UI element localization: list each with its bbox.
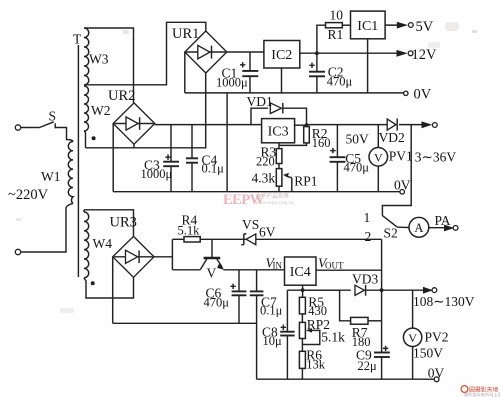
svg-text:S2: S2 [384, 226, 398, 241]
svg-text:12V: 12V [412, 47, 438, 63]
svg-text:0V: 0V [414, 87, 432, 103]
svg-text:1: 1 [364, 210, 371, 225]
svg-text:www.eepw.com.cn: www.eepw.com.cn [256, 201, 294, 206]
svg-text:OUT: OUT [325, 261, 344, 271]
svg-text:470μ: 470μ [204, 296, 230, 310]
svg-text:摄影爱好者的网上家园: 摄影爱好者的网上家园 [464, 391, 500, 397]
svg-text:150V: 150V [413, 346, 443, 361]
svg-text:0.1μ: 0.1μ [202, 162, 225, 176]
svg-text:RP1: RP1 [294, 174, 317, 189]
svg-text:430: 430 [308, 304, 327, 318]
svg-text:W3: W3 [89, 52, 109, 67]
svg-text:10μ: 10μ [263, 334, 283, 348]
svg-text:UR3: UR3 [110, 215, 137, 231]
svg-text:3∼36V: 3∼36V [415, 150, 457, 165]
svg-text:IC2: IC2 [271, 48, 292, 63]
svg-text:VD3: VD3 [352, 272, 378, 287]
svg-text:V: V [207, 266, 217, 281]
svg-text:UR2: UR2 [108, 88, 135, 104]
svg-text:PA: PA [435, 213, 451, 228]
svg-text:IC1: IC1 [357, 19, 378, 34]
svg-text:W1: W1 [41, 169, 61, 184]
svg-text:10: 10 [330, 7, 344, 22]
svg-text:~220V: ~220V [8, 187, 49, 203]
svg-text:A: A [414, 221, 423, 235]
svg-text:V: V [408, 331, 417, 345]
svg-text:VS: VS [242, 217, 259, 232]
svg-text:电子产品世界: 电子产品世界 [256, 192, 290, 200]
svg-text:0V: 0V [428, 365, 445, 380]
svg-text:PV1: PV1 [389, 148, 413, 163]
svg-text:W4: W4 [93, 236, 113, 251]
svg-text:0V: 0V [394, 177, 411, 192]
svg-text:50V: 50V [346, 131, 370, 146]
svg-text:470μ: 470μ [344, 161, 370, 175]
svg-text:470μ: 470μ [327, 75, 353, 89]
svg-text:0.1μ: 0.1μ [260, 304, 283, 318]
svg-text:IC3: IC3 [268, 124, 289, 139]
svg-text:1000μ: 1000μ [216, 76, 248, 90]
svg-text:2: 2 [365, 229, 372, 244]
svg-text:IC4: IC4 [290, 265, 311, 280]
svg-text:W2: W2 [91, 103, 111, 118]
svg-text:UR1: UR1 [172, 26, 199, 42]
svg-text:PV2: PV2 [425, 329, 449, 344]
svg-text:V: V [374, 150, 383, 164]
svg-text:5.1k: 5.1k [178, 223, 201, 237]
svg-text:T: T [73, 32, 82, 47]
svg-text:13k: 13k [306, 358, 326, 372]
svg-text:VD2: VD2 [379, 130, 405, 145]
svg-text:1000μ: 1000μ [141, 167, 173, 181]
svg-text:S: S [49, 109, 57, 124]
svg-text:108∼130V: 108∼130V [413, 294, 475, 309]
svg-text:220: 220 [256, 154, 275, 168]
svg-text:R1: R1 [328, 27, 344, 42]
svg-text:5V: 5V [416, 19, 434, 35]
svg-text:VD1: VD1 [247, 94, 273, 109]
svg-text:6V: 6V [259, 224, 276, 239]
svg-text:IN: IN [273, 260, 283, 270]
svg-text:4.3k: 4.3k [252, 170, 276, 185]
svg-text:160: 160 [312, 136, 331, 150]
svg-text:22μ: 22μ [358, 359, 378, 373]
svg-text:5.1k: 5.1k [321, 329, 345, 344]
